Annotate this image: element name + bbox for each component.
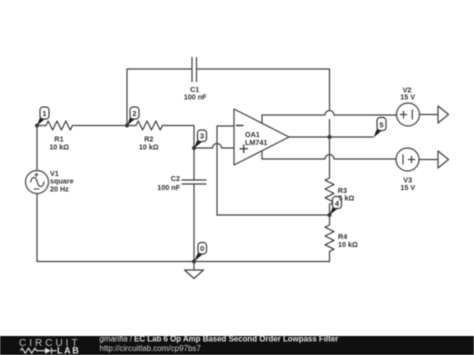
svg-text:LM741: LM741	[245, 138, 267, 147]
svg-text:0: 0	[200, 244, 204, 253]
svg-text:100 nF: 100 nF	[157, 183, 180, 192]
svg-text:20 Hz: 20 Hz	[50, 184, 69, 193]
svg-text:15 V: 15 V	[400, 183, 415, 192]
svg-text:C2: C2	[171, 174, 180, 183]
svg-text:5: 5	[379, 121, 383, 130]
svg-text:15 V: 15 V	[400, 93, 415, 102]
svg-text:100 nF: 100 nF	[184, 93, 207, 102]
svg-text:gmarifia / EC Lab 6 Op Amp Bas: gmarifia / EC Lab 6 Op Amp Based Second …	[100, 334, 339, 343]
svg-text:10 kΩ: 10 kΩ	[338, 240, 358, 249]
svg-text:2: 2	[132, 109, 136, 118]
svg-text:5 kΩ: 5 kΩ	[339, 194, 355, 203]
svg-text:http://circuitlab.com/cp97bs7: http://circuitlab.com/cp97bs7	[100, 344, 202, 353]
svg-text:1: 1	[42, 109, 46, 118]
svg-text:10 kΩ: 10 kΩ	[139, 142, 159, 151]
svg-text:3: 3	[200, 132, 204, 141]
svg-text:LAB: LAB	[57, 346, 80, 355]
svg-text:10 kΩ: 10 kΩ	[49, 142, 69, 151]
